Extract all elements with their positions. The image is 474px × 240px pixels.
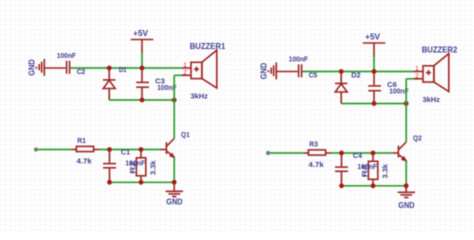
capacitor C2 100nF input coupling: [57, 51, 85, 76]
svg-text:C1: C1: [121, 147, 130, 156]
wire buzzer pin2 to collector: [405, 79, 407, 142]
power symbol +5V: [131, 28, 154, 53]
junction rail / +5V / C6: [372, 69, 377, 74]
resistor R1 4.7k base resistor: [71, 136, 99, 166]
ground symbol GND at C5 input: [259, 62, 298, 79]
svg-text:100nF: 100nF: [125, 159, 145, 168]
svg-text:BUZZER1: BUZZER1: [190, 41, 226, 51]
junction C6 bottom: [372, 101, 377, 106]
wire +5V drop: [141, 53, 143, 68]
svg-text:+5V: +5V: [365, 31, 380, 41]
wire +5V drop: [373, 57, 375, 72]
wire base net: [99, 149, 160, 151]
svg-text:4.7k: 4.7k: [309, 160, 324, 169]
junction collector / buzzer pin 2: [172, 98, 177, 103]
svg-text:4.7k: 4.7k: [77, 157, 92, 166]
transistor Q2 NPN: [392, 134, 421, 162]
svg-text:2: 2: [415, 73, 419, 80]
diode D1 flyback: [103, 65, 127, 100]
junction emitter / ground: [172, 180, 177, 185]
resistor R4 3.3k base-emitter: [360, 153, 390, 186]
svg-text:GND: GND: [259, 63, 269, 79]
wire +5V rail: [302, 71, 413, 73]
diode D2 flyback: [335, 71, 361, 104]
svg-text:3kHz: 3kHz: [191, 91, 209, 100]
junction rail / +5V / C3: [140, 66, 145, 71]
transistor Q1 NPN: [160, 130, 189, 158]
junction collector / buzzer pin 2: [404, 101, 409, 106]
wire collector node horizontal: [341, 103, 406, 105]
wire input to R3: [270, 152, 303, 154]
junction base / C1: [107, 147, 112, 152]
svg-text:2: 2: [183, 70, 187, 77]
svg-text:GND: GND: [27, 59, 37, 75]
svg-text:R3: R3: [309, 139, 318, 148]
svg-text:3.3k: 3.3k: [380, 163, 389, 178]
svg-text:D1: D1: [119, 65, 127, 74]
wire buzzer pin2 stub: [406, 78, 413, 80]
buzzer BUZZER2 3kHz: [414, 44, 458, 104]
junction base / R2: [139, 147, 144, 152]
svg-text:1: 1: [183, 62, 187, 69]
wire collector node horizontal: [109, 99, 174, 101]
wire buzzer pin2 stub: [174, 74, 181, 76]
svg-text:Q1: Q1: [181, 130, 190, 139]
junction R4 bottom: [371, 183, 376, 188]
resistor R2 3.3k base-emitter: [128, 150, 158, 183]
svg-text:3kHz: 3kHz: [423, 95, 441, 104]
ground symbol GND at emitter: [398, 188, 415, 210]
capacitor C3 100nF across buzzer: [136, 68, 177, 100]
junction emitter / ground: [404, 183, 409, 188]
wire emitter node horizontal: [342, 185, 407, 187]
capacitor C4 100nF base filter: [335, 151, 363, 186]
buzzer BUZZER1 3kHz: [182, 41, 226, 101]
wire base net: [331, 152, 392, 154]
svg-text:100nF: 100nF: [357, 162, 377, 171]
node input pin: [34, 147, 38, 151]
junction C4 bottom: [339, 183, 344, 188]
junction rail / D1: [107, 66, 112, 71]
svg-text:C4: C4: [353, 151, 363, 160]
junction C1 bottom: [107, 180, 112, 185]
wire +5V rail: [70, 67, 181, 69]
power symbol +5V: [363, 31, 386, 56]
svg-text:100nF: 100nF: [57, 51, 77, 60]
wire buzzer pin2 to collector: [173, 75, 175, 138]
junction R2 bottom: [139, 180, 144, 185]
svg-text:BUZZER2: BUZZER2: [422, 44, 458, 54]
junction base / C4: [339, 151, 344, 156]
svg-text:GND: GND: [166, 197, 182, 207]
svg-text:3.3k: 3.3k: [148, 160, 157, 175]
svg-text:1: 1: [415, 65, 419, 72]
junction base / R4: [371, 151, 376, 156]
svg-text:100nF: 100nF: [289, 54, 309, 63]
wire emitter down: [405, 161, 407, 186]
ground symbol GND at C2 input: [27, 59, 66, 76]
svg-text:D2: D2: [351, 71, 360, 80]
resistor R3 4.7k base resistor: [303, 139, 331, 169]
capacitor C1 100nF base filter: [103, 147, 130, 182]
node input pin: [266, 151, 270, 155]
wire emitter node horizontal: [110, 181, 175, 183]
wire emitter down: [173, 158, 175, 183]
svg-text:R1: R1: [77, 136, 86, 145]
svg-text:Q2: Q2: [413, 134, 422, 143]
svg-text:GND: GND: [398, 200, 414, 210]
svg-text:+5V: +5V: [133, 28, 148, 38]
junction C3 bottom: [140, 98, 145, 103]
wire input to R1: [38, 149, 71, 151]
junction rail / D2: [339, 69, 344, 74]
capacitor C6 100nF across buzzer: [368, 72, 409, 104]
ground symbol GND at emitter: [166, 184, 183, 206]
capacitor C5 100nF input coupling: [289, 54, 318, 79]
